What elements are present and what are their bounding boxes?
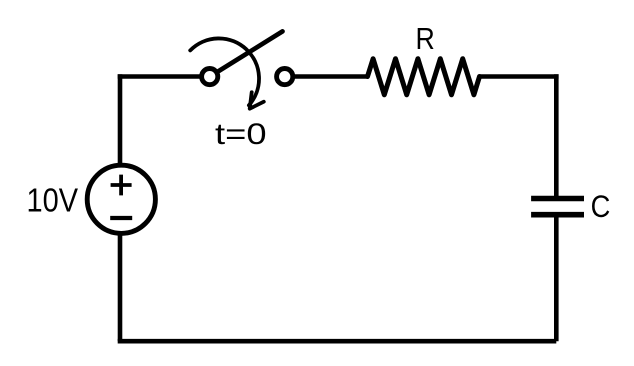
wire top-left horizontal segment [118, 74, 201, 79]
wire switch-to-resistor segment [294, 74, 368, 79]
wire right vertical upper segment [554, 74, 559, 196]
svg-text:t=0: t=0 [215, 118, 267, 151]
switch blade [219, 31, 283, 71]
switch closing motion arc [190, 38, 259, 105]
svg-text:R: R [416, 21, 435, 56]
svg-text:10V: 10V [27, 183, 79, 220]
capacitor C bottom plate [531, 212, 584, 218]
wire left vertical upper segment [118, 74, 123, 164]
capacitor C top plate [531, 196, 584, 202]
switch SW1 right terminal circle [277, 69, 293, 85]
wire resistor-to-corner segment [480, 74, 559, 79]
switch closing arrowhead [250, 92, 264, 108]
voltage source minus sign [110, 216, 132, 220]
svg-text:C: C [591, 188, 611, 224]
wire bottom horizontal segment [118, 339, 557, 344]
voltage source V1 circle [87, 165, 155, 233]
resistor R [368, 59, 480, 95]
wire left vertical lower segment [118, 234, 123, 341]
wire right vertical lower segment [554, 217, 559, 341]
voltage source plus sign [111, 175, 132, 196]
switch SW1 left terminal circle [202, 69, 218, 85]
